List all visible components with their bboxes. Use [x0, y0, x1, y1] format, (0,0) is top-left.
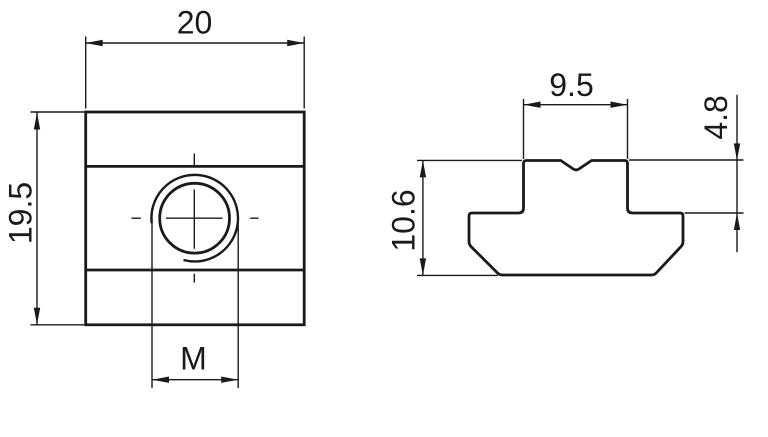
- extension line 19.5 bottom: [31, 324, 85, 326]
- arrow 20 right: [287, 40, 304, 46]
- extension line 10.6 bottom: [417, 274, 498, 276]
- dimension line 4.8: [736, 95, 738, 253]
- dimension line 20: [86, 42, 305, 44]
- vertical centerline long dash: [193, 190, 195, 249]
- arrow 9.5 left: [524, 102, 541, 108]
- horizontal centerline long dash: [166, 217, 223, 219]
- svg-text:M: M: [180, 341, 207, 377]
- vertical centerline top dash: [193, 154, 195, 167]
- nut body outline (top view square): [86, 112, 305, 325]
- arrow 10.6 bottom: [420, 258, 426, 275]
- dimension line 9.5: [524, 104, 628, 106]
- svg-text:20: 20: [177, 5, 213, 41]
- arrow 19.5 top: [34, 113, 40, 130]
- extension line 10.6 top: [417, 159, 522, 161]
- dimension line M: [152, 379, 238, 381]
- svg-text:10.6: 10.6: [386, 189, 422, 251]
- arrow M right: [221, 377, 238, 383]
- dimension line 10.6: [422, 160, 424, 275]
- extension line 20 right: [303, 37, 305, 109]
- extension line 9.5 left: [523, 99, 525, 159]
- vertical centerline bottom dash: [193, 274, 195, 283]
- extension line M right: [237, 218, 239, 388]
- upper slot edge line: [86, 165, 305, 168]
- extension line 4.8 top: [629, 159, 744, 161]
- arrow 4.8 top: [734, 143, 740, 160]
- extension line 19.5 top: [31, 111, 85, 113]
- extension line 4.8 bottom: [685, 212, 744, 214]
- extension line 9.5 right: [627, 99, 629, 159]
- svg-text:4.8: 4.8: [698, 95, 734, 139]
- arrow 19.5 bottom: [34, 308, 40, 325]
- dimension line 19.5: [36, 113, 38, 325]
- extension line 20 left: [85, 37, 87, 109]
- extension line M left: [151, 218, 153, 388]
- tapped hole inner circle: [160, 183, 230, 253]
- horizontal centerline right dash: [250, 217, 258, 219]
- arrow 10.6 top: [420, 160, 426, 177]
- T-nut profile outline (side view): [469, 161, 683, 276]
- thread arc (partial outer circle): [151, 175, 238, 262]
- svg-text:19.5: 19.5: [3, 182, 39, 244]
- arrow 9.5 right: [611, 102, 628, 108]
- horizontal centerline left dash: [132, 217, 141, 219]
- svg-text:9.5: 9.5: [549, 67, 593, 103]
- arrow 4.8 bottom: [734, 213, 740, 230]
- arrow M left: [152, 377, 169, 383]
- lower slot edge line: [86, 269, 305, 272]
- arrow 20 left: [86, 40, 103, 46]
